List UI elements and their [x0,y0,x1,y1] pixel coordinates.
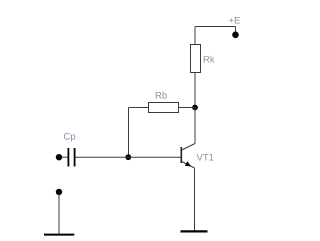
wire emitter down to ground [194,168,196,231]
wire +E stub [235,27,237,34]
capacitor Cp plate 2 [74,148,76,167]
terminal input dot [56,154,62,160]
transistor VT1 emitter diagonal [182,162,195,169]
resistor Rb [149,103,179,113]
svg-text:Rk: Rk [203,54,215,65]
terminal +E dot [232,32,239,39]
svg-text:Rb: Rb [155,91,167,102]
wire from Rk down to collector node [194,73,196,108]
wire capacitor to base node to base [76,156,182,158]
label VT1 [197,152,214,163]
svg-text:Cp: Cp [64,132,76,143]
wire from top rail down to Rk [194,27,196,45]
wire Rb left vertical down to base node [128,108,130,158]
svg-text:VT1: VT1 [197,152,214,163]
ground bias bar [44,234,74,236]
node base junction dot [125,154,131,160]
capacitor Cp plate 1 [67,148,69,167]
resistor Rk [191,45,201,73]
wire Rb left horizontal [129,107,149,109]
wire input dot to capacitor [62,156,68,158]
label Cp [64,132,76,143]
transistor VT1 emitter arrow [185,161,191,166]
wire Rb right to collector node [179,107,196,109]
label Rb [155,91,167,102]
transistor VT1 collector diagonal [182,144,195,151]
node collector junction dot [192,105,198,111]
wire collector vertical up to node [194,108,196,144]
terminal bias dot [56,189,62,195]
svg-text:+E: +E [229,15,241,26]
label +E [229,15,241,26]
wire top horizontal from Rk to +E [195,26,236,28]
transistor VT1 base bar [180,147,182,163]
wire bias terminal down to ground [58,194,60,234]
ground emitter bar [181,230,208,232]
label Rk [203,54,215,65]
